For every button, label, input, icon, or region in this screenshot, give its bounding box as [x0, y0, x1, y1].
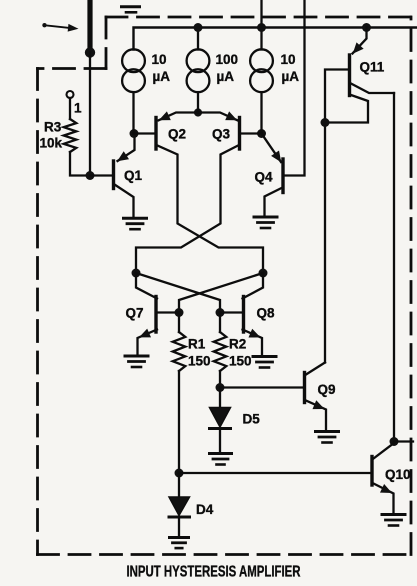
svg-text:150: 150	[229, 354, 252, 369]
node: Q11 base/collector junction	[321, 118, 330, 127]
label R1 150	[188, 337, 211, 369]
svg-text:Q11: Q11	[360, 60, 385, 75]
wire: Q11 collector to output node	[393, 93, 395, 442]
value label 100 uA	[216, 52, 239, 84]
svg-text:Q1: Q1	[124, 168, 143, 183]
node: R2/D5/Q9 base	[216, 383, 225, 392]
wire: I1 to node	[132, 92, 134, 133]
transistor Q3	[198, 111, 240, 149]
wire: node to Q1 base	[90, 174, 112, 176]
node: Q1 base	[86, 171, 95, 180]
label Q7	[126, 306, 144, 321]
svg-text:R1: R1	[188, 337, 206, 352]
svg-text:Q4: Q4	[255, 170, 274, 185]
wire: Q9 collector to Q11 node	[324, 123, 326, 363]
label R2 150	[229, 337, 252, 369]
transistor Q9	[305, 363, 327, 431]
wire: Q2 collector crossover to right node	[158, 146, 264, 274]
wire: rail to I2	[197, 28, 199, 50]
wire: output stub to boundary	[394, 440, 413, 442]
wire: node to Q3 base	[241, 132, 262, 134]
value label 10 uA	[281, 52, 300, 84]
svg-text:INPUT HYSTERESIS AMPLIFIER: INPUT HYSTERESIS AMPLIFIER	[127, 564, 301, 581]
resistor R2	[214, 313, 227, 372]
value label 10 uA	[152, 52, 171, 84]
wire: Q4 base to top pin	[285, 0, 305, 176]
svg-text:Q10: Q10	[385, 467, 411, 482]
wire: R2 to D5 node	[219, 371, 221, 388]
wire: node to Q7 base	[158, 311, 180, 313]
ground (Q8)	[253, 357, 276, 368]
svg-text:100: 100	[216, 52, 239, 67]
node: Q2/Q3 emitters	[194, 108, 202, 116]
wire: node to Q9 base	[220, 386, 303, 388]
wire: input to Q1 base node	[89, 53, 91, 176]
wire: left node to Q8 base node (cross)	[136, 273, 220, 313]
label Q1	[124, 168, 143, 183]
current source I2 100uA	[187, 49, 210, 92]
ground (Q9)	[316, 432, 339, 443]
transistor Q2	[156, 111, 198, 149]
svg-text:Q7: Q7	[126, 306, 144, 321]
ground (Q7)	[125, 356, 148, 367]
node: rail/Q11 emitter	[362, 23, 371, 32]
wire: I2 to emitter node	[197, 92, 199, 112]
caption: INPUT HYSTERESIS AMPLIFIER	[127, 564, 301, 581]
ground (Q4)	[254, 217, 277, 228]
diode D5	[210, 388, 231, 453]
svg-text:1: 1	[74, 101, 82, 116]
svg-text:Q9: Q9	[318, 382, 336, 397]
node: Q10 collector / output	[390, 437, 399, 446]
label Q9	[318, 382, 336, 397]
label D4	[196, 502, 214, 517]
label Q4	[255, 170, 274, 185]
label R3 10k	[40, 120, 63, 151]
svg-text:µA: µA	[217, 69, 235, 84]
transistor Q7	[136, 273, 157, 355]
wire: V+ rail	[134, 28, 417, 50]
wire: node to Q2 base	[134, 132, 155, 134]
transistor Q10	[372, 443, 394, 513]
svg-text:µA: µA	[282, 69, 300, 84]
current source I3 10uA	[250, 49, 273, 92]
wire: bus to Q10 base	[179, 472, 371, 474]
node: Q8 base / R2 top	[216, 308, 225, 317]
node: crossover right	[259, 269, 268, 278]
ground (D5)	[210, 454, 232, 465]
svg-text:Q2: Q2	[168, 127, 186, 142]
wire: Q11 base to node	[325, 70, 348, 119]
label Q3	[212, 127, 231, 142]
ground (D4)	[170, 538, 189, 549]
current source I1 10uA	[122, 49, 145, 92]
input arrow	[42, 23, 79, 33]
svg-text:R3: R3	[44, 120, 62, 135]
resistor R3	[64, 98, 77, 152]
wire: top pin to I3	[260, 0, 262, 50]
terminal 1 (R3 top)	[67, 91, 74, 98]
svg-text:150: 150	[188, 354, 211, 369]
resistor R1	[173, 313, 186, 372]
node: Q7 base / R1 top	[175, 308, 184, 317]
wire: R1 to output bus node	[178, 371, 180, 473]
label Q10	[385, 467, 411, 482]
transistor Q1	[114, 134, 135, 218]
node: rail/I3	[257, 23, 266, 32]
label Q11	[360, 60, 385, 75]
svg-text:µA: µA	[153, 69, 171, 84]
svg-text:R2: R2	[229, 337, 246, 352]
svg-text:10: 10	[281, 52, 296, 67]
wire: R3 to Q1 base node	[70, 152, 90, 176]
node: R1/D4/output bus	[175, 469, 184, 478]
node: I1/Q1 emitter/Q2 base	[130, 129, 139, 138]
svg-text:Q8: Q8	[257, 306, 276, 321]
ground (top pin)	[122, 7, 140, 13]
wire: I3 to node	[260, 92, 262, 133]
node: crossover left	[132, 269, 141, 278]
node: rail/I2	[194, 23, 203, 32]
pin label 1	[74, 101, 82, 116]
svg-text:D5: D5	[243, 412, 261, 427]
input pin (thick lead)	[85, 2, 95, 58]
label Q8	[257, 306, 276, 321]
wire: Q3 collector crossover to left node	[136, 146, 238, 274]
svg-text:D4: D4	[196, 502, 214, 517]
transistor Q4	[262, 134, 286, 217]
svg-text:Q3: Q3	[212, 127, 231, 142]
ground (Q10)	[382, 515, 405, 526]
svg-text:10: 10	[152, 52, 167, 67]
wire: node to Q8 base	[220, 311, 242, 313]
wire: right node to Q7 base node (cross)	[179, 273, 263, 313]
svg-text:10k: 10k	[40, 136, 63, 151]
label D5	[243, 412, 261, 427]
label Q2	[168, 127, 186, 142]
diode D4	[169, 473, 190, 537]
ground (Q1)	[124, 218, 147, 229]
node: I3/Q3 base/Q4 emitter	[257, 129, 266, 138]
transistor Q8	[243, 273, 264, 355]
transistor Q11 (dual collector)	[329, 28, 394, 123]
